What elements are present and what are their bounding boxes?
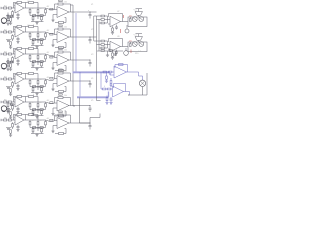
resistor R3d [10, 64, 12, 67]
svg-text:C4: C4 [27, 49, 29, 51]
resistor R5d [10, 112, 12, 115]
node mid stub [107, 51, 109, 55]
output loop B [128, 42, 147, 52]
ground U3b [52, 66, 54, 68]
blue resistor Rb2 [109, 71, 112, 73]
resistor R4k [59, 91, 64, 93]
resistor R2b [8, 31, 11, 33]
svg-text:C6: C6 [27, 95, 29, 97]
Vcc rail B [138, 34, 140, 37]
svg-text:C3: C3 [27, 25, 29, 27]
wire mixA1 [94, 15, 101, 17]
blue net band y72 [73, 71, 111, 73]
blue wire Ub1 out [127, 71, 139, 73]
capacitor C3c [17, 59, 19, 61]
resistor R3i [40, 61, 43, 63]
ground below U2a [9, 47, 12, 49]
svg-text:4k7: 4k7 [47, 6, 50, 8]
svg-text:2k: 2k [40, 102, 42, 104]
wire U4b in- [53, 79, 55, 81]
resistor R1g [45, 8, 47, 10]
resistor R2i [40, 39, 43, 41]
wire U5b out [69, 105, 75, 107]
mesh wire2 row 4 [31, 92, 44, 94]
Vcc rail A [138, 9, 140, 12]
wire UBr out [121, 46, 129, 48]
ground below U1a [9, 23, 12, 25]
resistor R5i [40, 109, 43, 111]
op-amp U2a [15, 27, 24, 37]
wire U1b in- [53, 9, 55, 11]
svg-text:R7: R7 [58, 1, 60, 3]
wire U5b in- [53, 102, 55, 105]
resistor R3e [29, 54, 31, 56]
svg-text:R12: R12 [58, 114, 61, 116]
bus wire x73 [72, 5, 74, 106]
connector jack [1, 63, 6, 68]
input J3 terminal [0, 53, 2, 55]
svg-text:k: k [33, 94, 34, 96]
ground U2b [52, 43, 54, 45]
feedback wire U2b [54, 29, 56, 35]
svg-text:2k: 2k [40, 79, 42, 81]
op-amp U4a [15, 74, 24, 84]
blue bus wire x80 [79, 72, 81, 98]
transistor QA1 [132, 17, 137, 22]
bus corner x73 top [71, 4, 74, 6]
output loop A [128, 17, 147, 27]
mesh wire2 row 5 [31, 115, 44, 117]
wire U2b in+ [53, 39, 57, 41]
capacitor C3b [37, 54, 39, 56]
resistor R5e [29, 102, 31, 104]
resistor R6e [29, 120, 31, 122]
svg-text:V5: V5 [91, 100, 93, 102]
resistor RmB3 [101, 47, 104, 49]
resistor R5m [41, 109, 43, 111]
wire U5a out [24, 101, 30, 103]
blue resistor Rb1 [103, 71, 106, 73]
ground C5c [16, 112, 19, 114]
ground below U6a [9, 135, 12, 137]
resistor R1m [41, 15, 43, 17]
resistor R2m [41, 39, 43, 41]
op-amp U1a inputs [13, 5, 16, 7]
feedback resistor R2f [17, 26, 22, 28]
resistor R1k [59, 22, 64, 24]
wire mixB2 [97, 44, 102, 46]
wire U4b out [69, 80, 75, 82]
mesh wire2 row 3 [31, 67, 44, 69]
svg-text:R9: R9 [103, 47, 105, 49]
resistor R3l [32, 61, 34, 63]
transistor QB1 [132, 42, 137, 47]
mix bus x94 [93, 16, 95, 41]
resistor R6d [10, 130, 12, 133]
blue net band y97 [77, 96, 109, 98]
transformer TB [135, 37, 143, 41]
resistor R1d [10, 18, 12, 21]
connector stub [10, 61, 13, 63]
svg-text:k: k [33, 25, 34, 27]
svg-text:4k7: 4k7 [47, 52, 50, 54]
feedback resistor R4j [58, 72, 63, 74]
rail resistor R1r [26, 2, 29, 4]
resistor R1i [40, 15, 43, 17]
blue bus riser x101 [100, 72, 102, 89]
op-amp U6b [57, 118, 69, 129]
resistor R1a [4, 7, 7, 9]
resistor R6g [45, 120, 47, 122]
resistor R4c [12, 81, 14, 82]
feedback wire U6a [12, 115, 14, 121]
resistor R4a [4, 78, 7, 80]
op-amp U2b [57, 32, 69, 43]
mix bus x99 [98, 20, 100, 52]
capacitor C2b [37, 32, 39, 34]
ground below U4a [9, 94, 12, 96]
capacitor C5c [17, 107, 19, 109]
ground mesh 6 [36, 134, 38, 135]
resistor R3h [33, 61, 36, 63]
resistor RmB1 [101, 40, 104, 42]
wire U4a out [24, 78, 30, 80]
wire U3b out [69, 59, 75, 61]
resistor R1l [32, 15, 34, 17]
feedback wire U4a [12, 74, 14, 80]
ground U4b [52, 87, 54, 89]
resistor R4e [29, 79, 31, 81]
capacitor below UAr [116, 25, 118, 27]
ground C1c [16, 18, 19, 20]
feedback wire U3b [54, 52, 56, 58]
coupling capacitor C4o [89, 81, 91, 84]
wire U1b in+ [53, 14, 57, 16]
resistor R3k [59, 70, 64, 72]
connector ground [7, 66, 9, 69]
resistor R3a [4, 53, 7, 55]
svg-text:k: k [33, 49, 34, 51]
resistor R4d [10, 89, 12, 92]
coupling capacitor C3o [89, 60, 91, 63]
svg-text:10k: 10k [64, 27, 67, 29]
resistor R3b [8, 53, 11, 55]
feedback resistor R4f [17, 73, 22, 75]
svg-text:2k: 2k [40, 120, 42, 122]
wire speaker join [128, 94, 130, 96]
svg-text:4k7: 4k7 [47, 100, 50, 102]
feedback wire U3a [12, 49, 14, 55]
red mark VR1 [120, 29, 122, 33]
feedback resistor R1j [58, 3, 63, 5]
blue feedback resistor [119, 64, 124, 66]
resistor R4in [50, 77, 53, 79]
resistor R1in [50, 8, 53, 10]
junction row 3 [90, 60, 91, 61]
connector stub [10, 104, 13, 106]
svg-text:C5: C5 [27, 74, 29, 76]
svg-text:4k7: 4k7 [47, 77, 50, 79]
feedback resistor R1f [17, 2, 22, 4]
node mid stub2 [115, 51, 117, 56]
wire U2b in- [53, 34, 55, 35]
connector stub [10, 16, 13, 18]
blue network below [106, 96, 108, 98]
resistor R2d [10, 42, 12, 45]
coupling capacitor C1o [89, 12, 91, 15]
wire U2a out [24, 31, 30, 33]
wire UAr out [121, 21, 129, 23]
feedback wire U4b [54, 73, 56, 79]
resistor R2g [45, 32, 47, 34]
svg-text:10k: 10k [64, 95, 67, 97]
resistor R2c [12, 34, 14, 35]
ground U5b [52, 112, 54, 114]
rail resistor R2r [26, 26, 29, 28]
ground mesh 2 [36, 46, 38, 47]
resistor R3c [12, 56, 14, 57]
resistor R4m [41, 86, 43, 88]
svg-text:1k: 1k [32, 54, 34, 56]
capacitor C3a [6, 61, 11, 63]
svg-text:R11: R11 [58, 95, 61, 97]
op-amp U4b [57, 76, 69, 87]
blue wire Ub2 out [124, 91, 130, 93]
resistor R4b [8, 78, 11, 80]
svg-text:C2: C2 [27, 1, 29, 3]
wire mixB3 [99, 47, 101, 49]
transformer TA [135, 12, 143, 16]
resistor R3g [45, 54, 47, 56]
capacitor C4f [59, 69, 62, 71]
mix node B [107, 41, 109, 48]
op-amp UBr [110, 41, 121, 52]
resistor R6i [40, 127, 43, 129]
capacitor C4b [37, 79, 39, 81]
feedback resistor R2j [58, 28, 63, 30]
capacitor C2a [6, 39, 11, 41]
resistor R2h [33, 39, 36, 41]
mesh wire2 row 6 [31, 133, 44, 135]
junction row 2 [90, 37, 91, 38]
resistor RmB2 [101, 44, 104, 46]
svg-text:1k: 1k [32, 120, 34, 122]
transistor QA2 [139, 17, 144, 22]
svg-text:V2: V2 [91, 29, 93, 31]
wire U5b in+ [53, 107, 57, 109]
mesh wire row 4 [30, 86, 46, 88]
feedback wire U5a [12, 97, 14, 103]
bus wire x73 bottom [73, 105, 75, 107]
resistor R2in [50, 33, 53, 35]
junction row 4 [90, 81, 91, 82]
resistor R6l [32, 127, 34, 129]
bias diodes B [130, 44, 132, 47]
resistor R2a [4, 31, 7, 33]
blue feedback Ub2 [113, 84, 115, 89]
blue cap below [110, 99, 113, 100]
wire U3b in- [53, 56, 55, 58]
coupling capacitor C6o [89, 123, 91, 126]
connector jack [1, 106, 6, 111]
connector ground [7, 109, 9, 112]
capacitor C6a [6, 127, 11, 129]
wire U1a out [24, 7, 30, 9]
capacitor C1a [6, 15, 11, 17]
mesh wire row 6 [30, 127, 46, 129]
feedback wire U5b [54, 98, 56, 104]
feedback UBr [108, 39, 110, 43]
connector jack [1, 18, 6, 23]
ground below U3a [9, 69, 12, 71]
junction row 5 [90, 105, 91, 106]
resistor RmA1 [101, 15, 104, 17]
capacitor C2c [17, 37, 19, 39]
blue net hook [109, 72, 111, 75]
resistor R5g [45, 102, 47, 104]
blue feedback Ub1 [114, 65, 116, 69]
wire U1b out [69, 11, 75, 13]
blue net hook2 [108, 92, 110, 98]
resistor R2k [59, 47, 64, 49]
svg-text:10k: 10k [64, 71, 67, 73]
speaker LS1 [139, 80, 145, 86]
feedback resistor R3f [17, 48, 22, 50]
capacitor C3f [59, 48, 62, 50]
transistor QB2 [139, 42, 144, 47]
resistor RmA2 [101, 19, 104, 21]
trim pot VR1 [126, 25, 128, 29]
svg-text:R8: R8 [58, 24, 60, 26]
svg-text:V4: V4 [91, 78, 93, 80]
svg-text:R15: R15 [135, 53, 138, 55]
rail resistor R4r [26, 73, 29, 75]
capacitor C4c [17, 84, 19, 86]
wire U6b in+ [53, 125, 57, 127]
op-amp U6a [15, 115, 24, 125]
ground U1b [52, 18, 54, 20]
capacitor C6f [59, 111, 62, 113]
feedback resistor R5j [58, 97, 63, 99]
mesh wire row 3 [30, 61, 46, 63]
resistor R6b [8, 119, 11, 121]
resistor R5a [4, 101, 7, 103]
op-amp U3b [57, 55, 69, 66]
resistor R4h [33, 86, 36, 88]
wire speaker bottom [142, 87, 144, 96]
junction row 1 [90, 12, 91, 13]
resistor R4i [40, 86, 43, 88]
network below UBr [112, 51, 114, 53]
capacitor C5f [59, 94, 62, 96]
capacitor C2f [59, 25, 62, 27]
op-amp U2a inputs [13, 29, 16, 31]
svg-text:Vcc: Vcc [134, 35, 137, 37]
blue bus wire x76 [75, 13, 77, 72]
op-amp U3a inputs [13, 51, 16, 53]
input J4 terminal [0, 78, 2, 80]
ground C2c [16, 42, 19, 44]
capacitor C5a [6, 109, 11, 111]
ground C4c [16, 89, 19, 91]
resistor R2e [29, 32, 31, 34]
ground U6b [52, 129, 54, 131]
feedback resistor R6j [58, 114, 63, 116]
svg-text:1k: 1k [32, 32, 34, 34]
wire U3a out [24, 53, 30, 55]
resistor RmA3 [101, 22, 104, 24]
op-amp U6a inputs [13, 117, 16, 119]
op-amp U4a inputs [13, 76, 16, 78]
wire U6b in- [53, 121, 55, 122]
svg-text:1k: 1k [32, 102, 34, 104]
svg-text:C7: C7 [27, 115, 29, 117]
op-amp U5a [15, 97, 24, 107]
ground C6c [16, 130, 19, 132]
resistor R1e [29, 8, 31, 10]
input J5 terminal [0, 101, 2, 103]
resistor R5k [59, 115, 64, 117]
mesh wire row 2 [30, 39, 46, 41]
capacitor C6c [17, 125, 19, 127]
resistor R2l [32, 39, 34, 41]
red tick mid [130, 50, 132, 54]
svg-text:V3: V3 [91, 54, 93, 56]
feedback wire U2a [12, 27, 14, 33]
feedback UAr [108, 14, 110, 18]
op-amp UAr [110, 16, 121, 27]
svg-text:10k: 10k [64, 113, 67, 115]
svg-text:2k: 2k [40, 54, 42, 56]
red node mark [123, 15, 125, 18]
op-amp U3a [15, 49, 24, 59]
feedback wire U1b [54, 4, 56, 10]
svg-text:4k7: 4k7 [47, 118, 50, 120]
ground mesh 3 [36, 68, 38, 69]
input J1 terminal [0, 7, 2, 9]
mix bus x96 tail [96, 96, 98, 101]
capacitor C1b [37, 8, 39, 10]
network below UAr [112, 26, 114, 28]
blue comp below Ub1 b [106, 73, 108, 76]
bias diodes A [130, 19, 132, 22]
resistor R6a [4, 119, 7, 121]
svg-text:1k: 1k [32, 8, 34, 10]
mix node A [107, 16, 109, 23]
resistor Rms1 [101, 50, 104, 52]
input J6 terminal [0, 119, 2, 121]
svg-text:R10: R10 [58, 72, 61, 74]
wire out row6 [89, 118, 91, 124]
wire mixA3 [99, 22, 101, 24]
feedback wire U6b [54, 115, 56, 121]
ground mesh 5 [36, 116, 38, 117]
resistor Rms2 [109, 50, 112, 52]
resistor R1c [12, 10, 14, 11]
mix bus x96 [96, 16, 98, 96]
op-amp U1a [15, 3, 24, 13]
capacitor C6b [37, 120, 39, 122]
wire mid small [97, 50, 123, 52]
wire U6a out [24, 119, 30, 121]
svg-text:4.7k: 4.7k [138, 51, 141, 53]
svg-text:2k: 2k [40, 32, 42, 34]
junction row 6 [90, 123, 91, 124]
resistor R6in [50, 119, 53, 121]
op-amp UBr + input [108, 48, 110, 50]
svg-text:U7: U7 [117, 11, 119, 13]
svg-text:U8: U8 [117, 36, 119, 38]
